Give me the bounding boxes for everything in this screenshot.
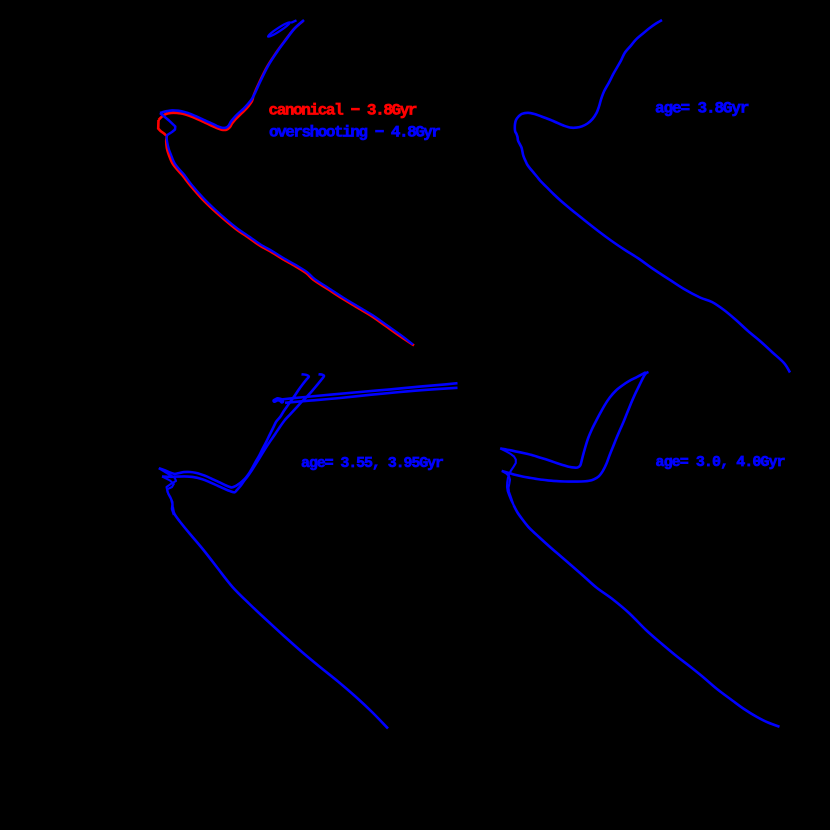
red canonical turnoff hook (top-left) (158, 120, 167, 139)
svg-text:canonical − 3.8Gyr: canonical − 3.8Gyr (269, 102, 417, 120)
blue turnoff hook D (bottom-right) (502, 471, 514, 505)
blue RGB-tip loop (top-left) (267, 21, 291, 38)
red canonical isochrone RGB+SGB (top-left) (159, 21, 304, 130)
blue overshooting turnoff hook (top-left) (160, 113, 175, 136)
svg-text:overshooting − 4.8Gyr: overshooting − 4.8Gyr (269, 124, 440, 142)
blue shallow branch lower (bottom-left) (285, 388, 458, 403)
blue RGB line B (bottom-left) (162, 374, 324, 492)
red canonical main sequence (top-left) (166, 139, 414, 346)
blue isochrone D age 4.0Gyr (bottom-right) (502, 372, 649, 482)
blue junction knot (bottom-left) (275, 399, 283, 401)
blue RGB-tip dash (top-left) (291, 20, 297, 23)
blue overshooting isochrone RGB+SGB (top-left) (160, 20, 304, 128)
blue isochrone C age 3.0Gyr (bottom-right) (500, 372, 646, 467)
svg-text:age= 3.55, 3.95Gyr: age= 3.55, 3.95Gyr (301, 455, 443, 472)
blue turnoff hook A (bottom-left) (159, 468, 176, 507)
blue isochrone age 3.8Gyr (top-right) (515, 20, 790, 373)
blue overshooting main sequence (top-left) (167, 136, 414, 345)
blue turnoff hook B (bottom-left) (162, 476, 174, 515)
svg-text:age= 3.8Gyr: age= 3.8Gyr (655, 100, 749, 118)
blue RGB line A (bottom-left) (159, 374, 309, 487)
blue main sequence (bottom-left) (173, 508, 388, 729)
blue shared main sequence (bottom-right) (514, 505, 780, 727)
blue turnoff hook C (bottom-right) (500, 448, 516, 505)
blue shallow branch upper (bottom-left) (277, 383, 458, 400)
svg-text:age= 3.0, 4.0Gyr: age= 3.0, 4.0Gyr (656, 454, 785, 471)
